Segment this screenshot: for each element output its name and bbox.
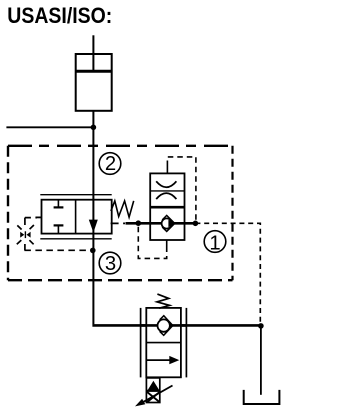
svg-text:3: 3 <box>105 253 116 275</box>
tank symbol <box>244 390 280 404</box>
enclosure dashed boundary right <box>231 146 233 280</box>
check valve CV2 seat <box>160 316 173 336</box>
wire to tank <box>260 326 262 395</box>
restrictor solid triangle <box>147 381 160 392</box>
relief valve V2 body <box>146 308 181 377</box>
enclosure dashed boundary top <box>8 145 233 147</box>
relief valve V2 rails <box>141 308 187 378</box>
node 1 circle <box>204 231 226 255</box>
node 3 circle <box>99 252 121 275</box>
enclosure dashed boundary left <box>7 146 9 280</box>
adjustment arrow <box>135 386 173 407</box>
enclosure dashed boundary bottom <box>8 279 233 281</box>
svg-text:USASI/ISO:: USASI/ISO: <box>7 3 112 28</box>
blocked port symbol bottom <box>54 225 64 233</box>
check valve CV1 arrow <box>168 220 175 228</box>
flow control FC bottom port stub <box>166 240 168 247</box>
cylinder C1 body <box>76 54 112 111</box>
pilot drain dashed wire <box>24 249 89 251</box>
flow control FC divider thin <box>150 190 184 192</box>
flow control FC top port stub <box>166 166 168 173</box>
flow control FC dashed pilot box <box>167 157 196 221</box>
spring of V2 <box>157 294 170 308</box>
junction dot bottom right <box>258 323 264 329</box>
V1 left port stub <box>36 216 42 218</box>
orifice arc lower <box>156 193 176 199</box>
junction dot top <box>91 125 97 131</box>
junction dot node3 <box>90 248 96 254</box>
blocked port symbol top <box>54 200 64 208</box>
junction dot mid-left <box>136 220 142 226</box>
pilot vent X mark <box>17 225 34 244</box>
flow arrow right in V2 <box>146 356 179 364</box>
svg-text:1: 1 <box>209 232 220 254</box>
pilot dashed wire right <box>195 223 260 322</box>
wire main vertical <box>92 111 94 325</box>
wire top horizontal <box>6 126 93 128</box>
check valve CV1 seat <box>162 215 175 231</box>
pilot vent symbol dashed box <box>25 218 37 251</box>
compensator valve V1 body <box>42 200 112 234</box>
restrictor X mark <box>147 392 160 403</box>
compensator valve V1 divider <box>75 200 77 234</box>
flow arrow down in V1 <box>89 220 98 233</box>
check valve CV1 ball <box>162 218 172 228</box>
flow control FC body <box>150 173 184 240</box>
check valve CV2 ball <box>158 319 170 331</box>
orifice arc upper <box>156 181 176 187</box>
spring of V1 <box>111 201 134 217</box>
flow control FC divider thick <box>150 206 184 209</box>
check valve CV2 arrow <box>169 322 173 329</box>
wire through V2 <box>141 324 187 327</box>
cylinder C1 rod <box>92 35 94 71</box>
wire bottom horizontal <box>92 324 261 327</box>
svg-text:2: 2 <box>105 153 116 175</box>
pilot dashed stub right of V1 <box>111 222 125 224</box>
flow control FC bottom pilot loop <box>138 227 166 259</box>
restrictor box below V2 <box>146 378 159 403</box>
relief valve V2 divider <box>146 342 181 344</box>
junction dot mid-right <box>193 221 199 227</box>
compensator valve V1 rails <box>40 195 111 239</box>
cylinder C1 piston <box>76 70 112 73</box>
wire thick mid horizontal <box>126 222 196 225</box>
node 2 circle <box>99 153 121 176</box>
